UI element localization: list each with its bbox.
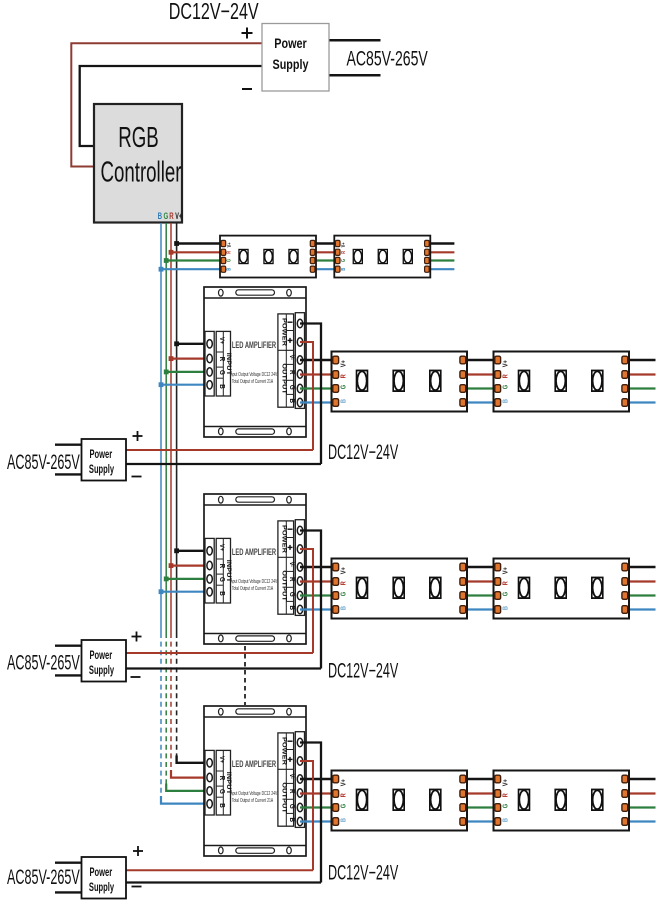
svg-text:AC85V-265V: AC85V-265V [7, 865, 80, 889]
svg-text:AC85V-265V: AC85V-265V [7, 450, 80, 474]
svg-text:DC12V−24V: DC12V−24V [328, 860, 399, 884]
svg-text:DC12V−24V: DC12V−24V [328, 440, 399, 464]
svg-text:Controller: Controller [101, 157, 182, 189]
svg-text:G: G [164, 211, 169, 222]
svg-text:AC85V-265V: AC85V-265V [7, 650, 80, 674]
svg-text:DC12V−24V: DC12V−24V [169, 0, 260, 25]
svg-text:V+: V+ [175, 211, 182, 222]
svg-text:B: B [158, 211, 163, 222]
svg-text:DC12V−24V: DC12V−24V [328, 658, 399, 682]
svg-text:R: R [169, 211, 174, 222]
svg-text:Supply: Supply [273, 57, 309, 72]
svg-text:AC85V-265V: AC85V-265V [347, 47, 428, 70]
svg-text:RGB: RGB [118, 122, 158, 154]
svg-text:Power: Power [274, 36, 307, 51]
